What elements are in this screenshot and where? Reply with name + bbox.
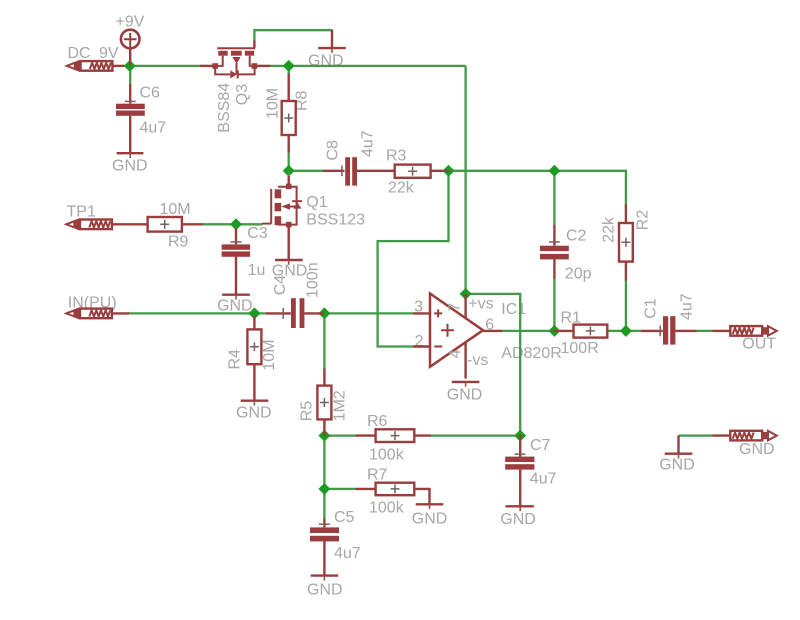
wire C6 stub xyxy=(129,66,131,85)
wire 9V rail Q3 drain to +vs column xyxy=(269,65,466,67)
label IN(PU) xyxy=(68,294,117,311)
resistor R6 xyxy=(356,429,432,442)
wire C4 to op-amp pin 3 xyxy=(322,312,413,314)
value 10M (R4, rotated) xyxy=(261,339,278,370)
capacitor C7 xyxy=(505,434,534,506)
value 10M (R9) xyxy=(160,201,191,218)
value 22k (R2, rotated) xyxy=(601,216,618,243)
svg-text:GND: GND xyxy=(217,298,253,315)
value 4u7 (C7) xyxy=(530,471,557,488)
wire R5 to R6/R7 junctions and C5 xyxy=(323,436,325,520)
wire R6 right to C7 junction xyxy=(430,434,520,436)
label BSS84 (Q3 value, rotated) xyxy=(216,83,233,133)
label TP1 xyxy=(67,204,96,221)
label GND (output jack ground pin) xyxy=(659,457,695,474)
ground C5 xyxy=(311,576,339,581)
svg-text:GND: GND xyxy=(307,582,343,599)
ground C3 xyxy=(222,295,250,300)
wire R8 bottom to C8 xyxy=(289,152,324,171)
capacitor C2 xyxy=(540,225,569,279)
svg-text:AD820R: AD820R xyxy=(501,345,561,362)
svg-text:C5: C5 xyxy=(334,509,355,526)
wire op-amp output to R1 xyxy=(502,330,555,332)
capacitor C3 xyxy=(222,228,251,295)
label R5 (rotated) xyxy=(299,401,316,422)
label C6 xyxy=(140,84,161,101)
label R2 (rotated) xyxy=(635,210,652,231)
ground GND jack net xyxy=(665,436,693,459)
value 100k (R7) xyxy=(369,499,405,516)
capacitor C1 xyxy=(641,316,697,344)
transistor Q3 BSS84 xyxy=(200,41,270,79)
value 4u7 (C5) xyxy=(334,545,361,562)
label GND (C3) xyxy=(217,298,253,315)
connector GND jack xyxy=(713,431,777,441)
label C3 xyxy=(247,225,268,242)
svg-text:+9V: +9V xyxy=(116,14,145,31)
pin 3 label xyxy=(414,299,423,316)
label GND (C6) xyxy=(112,157,148,174)
svg-text:100k: 100k xyxy=(369,499,405,516)
svg-text:GND: GND xyxy=(412,511,448,528)
svg-text:4u7: 4u7 xyxy=(360,130,377,157)
svg-text:+vs: +vs xyxy=(468,296,493,313)
connector IN(PU) jack xyxy=(66,309,129,319)
ground Q1 source xyxy=(275,260,303,265)
svg-text:4: 4 xyxy=(447,349,464,358)
wire R3 to C2 corner and R2 corner xyxy=(449,171,626,206)
svg-text:IC1: IC1 xyxy=(501,301,526,318)
pin 7 label (rotated) xyxy=(447,303,464,312)
value BSS123 (Q1) xyxy=(306,212,365,229)
capacitor C8 xyxy=(323,157,395,185)
label GND (R4) xyxy=(236,404,272,421)
wire IN jack to C4 xyxy=(128,312,267,314)
label GND (IC1 -vs) xyxy=(447,387,483,404)
ground IC1 -vs xyxy=(452,382,480,387)
pin +vs label xyxy=(468,296,493,313)
ground C6 xyxy=(117,153,144,158)
capacitor C4 xyxy=(266,298,324,328)
svg-text:1M2: 1M2 xyxy=(332,390,349,421)
svg-text:Q1: Q1 xyxy=(306,194,327,211)
label C4 (rotated) xyxy=(272,275,289,296)
value 4u7 (C6) xyxy=(140,120,167,137)
pin 4 label (rotated) xyxy=(447,349,464,358)
pin 6 label xyxy=(485,316,494,333)
label R9 xyxy=(168,234,189,251)
svg-text:BSS123: BSS123 xyxy=(306,212,365,229)
junction at TP1 node xyxy=(230,218,242,230)
value 22k (R3) xyxy=(388,179,415,196)
wire R2 bottom to output net xyxy=(625,280,627,331)
value 20p (C2) xyxy=(565,265,592,282)
svg-text:C6: C6 xyxy=(140,84,161,101)
wire TP1 node down to C3 xyxy=(235,224,237,230)
label GND (C5) xyxy=(307,582,343,599)
svg-text:4u7: 4u7 xyxy=(140,120,167,137)
svg-text:GND: GND xyxy=(739,441,775,458)
junction at Q3 drain / R8 xyxy=(283,60,295,72)
svg-text:R2: R2 xyxy=(635,210,652,231)
svg-text:10M: 10M xyxy=(261,339,278,370)
label C1 (rotated) xyxy=(643,298,660,319)
label C8 (rotated) xyxy=(325,140,342,161)
resistor R8 xyxy=(282,74,296,153)
svg-text:R5: R5 xyxy=(299,401,316,422)
label GND (Q3 gate net) xyxy=(308,52,344,69)
wire R4 stub xyxy=(253,313,255,317)
junction at IN / R4 node xyxy=(248,307,260,319)
svg-text:-vs: -vs xyxy=(467,352,488,369)
wire R2 junction to C1 xyxy=(626,330,642,332)
svg-text:10M: 10M xyxy=(265,88,282,119)
ground Q3 gate net xyxy=(318,30,346,53)
svg-text:22k: 22k xyxy=(388,179,415,196)
ground R4 xyxy=(241,401,269,406)
value AD820R (IC1) xyxy=(501,345,561,362)
op-amp IC1 AD820R xyxy=(413,294,503,379)
supply +9V symbol xyxy=(121,30,140,65)
junction at R5 bottom / R6 xyxy=(318,430,330,442)
wire +vs to C7 column xyxy=(466,294,521,436)
svg-text:22k: 22k xyxy=(601,216,618,243)
junction at R8 bottom / C8 / Q1 drain xyxy=(283,165,295,177)
label R6 xyxy=(367,413,388,430)
transistor Q1 BSS123 xyxy=(262,171,302,260)
resistor R2 xyxy=(619,205,633,281)
connector OUT jack xyxy=(713,326,777,336)
resistor R5 xyxy=(317,369,331,437)
wire feedback from R3 junction down to pin 2 xyxy=(378,171,449,347)
svg-text:4u7: 4u7 xyxy=(530,471,557,488)
svg-text:R9: R9 xyxy=(168,234,189,251)
svg-text:Q3: Q3 xyxy=(234,84,251,105)
svg-text:4u7: 4u7 xyxy=(334,545,361,562)
pin -vs label xyxy=(467,352,488,369)
svg-text:TP1: TP1 xyxy=(67,204,96,221)
label R4 (rotated) xyxy=(227,349,244,370)
junction at DC input node xyxy=(124,60,136,72)
svg-text:10M: 10M xyxy=(160,201,191,218)
value 4u7 (C8, rotated) xyxy=(360,130,377,157)
value 1M2 (R5, rotated) xyxy=(332,390,349,421)
wire GND jack to ground corner xyxy=(679,434,714,436)
label GND (C7) xyxy=(500,511,536,528)
wire Q3 gate net top xyxy=(254,30,332,41)
svg-text:R7: R7 xyxy=(367,466,388,483)
svg-text:C4: C4 xyxy=(272,275,289,296)
value 4u7 (C1, rotated) xyxy=(679,293,696,320)
svg-text:4u7: 4u7 xyxy=(679,293,696,320)
label DC_9V xyxy=(68,45,119,62)
junction at C4 right / R5 xyxy=(318,307,330,319)
svg-text:GND: GND xyxy=(447,387,483,404)
svg-text:C2: C2 xyxy=(566,228,587,245)
svg-text:R4: R4 xyxy=(227,349,244,370)
label R1 xyxy=(561,309,582,326)
junction at R1 right / R2 bottom xyxy=(620,325,632,337)
wire C2 top stub xyxy=(553,171,555,226)
junction at C2 top xyxy=(548,165,560,177)
wire C1 to OUT jack xyxy=(696,330,714,332)
label OUT xyxy=(742,336,776,353)
svg-text:100R: 100R xyxy=(561,340,599,357)
svg-text:BSS84: BSS84 xyxy=(216,83,233,133)
capacitor C5 xyxy=(310,519,339,576)
label R8 (rotated) xyxy=(294,90,311,111)
wire R8 top stub xyxy=(288,66,290,75)
connector DC_9V jack xyxy=(67,61,124,71)
wire R1 to R2 junction xyxy=(607,330,626,332)
wire C2 bottom to output net xyxy=(553,278,555,331)
ground R7 xyxy=(416,504,444,509)
junction at op-amp +vs xyxy=(460,288,472,300)
value 100k (R6) xyxy=(369,447,405,464)
svg-text:GND: GND xyxy=(659,457,695,474)
svg-text:R3: R3 xyxy=(386,147,407,164)
resistor R1 xyxy=(554,325,608,338)
svg-text:OUT: OUT xyxy=(742,336,776,353)
svg-text:C8: C8 xyxy=(325,140,342,161)
value 100n (C4, rotated) xyxy=(304,262,321,298)
svg-text:C3: C3 xyxy=(247,225,268,242)
wire R7 left stub xyxy=(324,488,356,490)
value 10M (R8, rotated) xyxy=(265,88,282,119)
resistor R9 xyxy=(148,217,203,232)
wire R5 column xyxy=(323,313,325,369)
label GND (R7) xyxy=(412,511,448,528)
label C7 xyxy=(530,437,551,454)
label GND (Q1 source) xyxy=(272,262,308,279)
wire R6 left stub xyxy=(324,434,356,436)
value 1u (C3) xyxy=(248,262,266,279)
junction at C7 top xyxy=(514,430,526,442)
label Q1 xyxy=(306,194,327,211)
label GND (output jack) xyxy=(739,441,775,458)
svg-text:20p: 20p xyxy=(565,265,592,282)
label Q3 (rotated) xyxy=(234,84,251,105)
junction at C2 bottom / R1 left xyxy=(548,325,560,337)
junction at R3 right / feedback xyxy=(443,165,455,177)
resistor R4 xyxy=(247,317,261,401)
svg-text:GND: GND xyxy=(112,157,148,174)
resistor R7 xyxy=(356,483,430,504)
resistor R3 xyxy=(395,165,449,178)
svg-text:7: 7 xyxy=(447,303,464,312)
label R7 xyxy=(367,466,388,483)
svg-text:R6: R6 xyxy=(367,413,388,430)
junction at R7 tap xyxy=(318,483,330,495)
wire +vs column down to op-amp pin 7 xyxy=(464,66,466,294)
capacitor C6 xyxy=(116,84,145,153)
wire 9V rail DC jack to Q3 xyxy=(122,65,201,67)
svg-text:GND: GND xyxy=(236,404,272,421)
pin 2 label xyxy=(415,333,424,350)
value 100R (R1) xyxy=(561,340,599,357)
label +9V xyxy=(116,14,145,31)
svg-text:100k: 100k xyxy=(369,447,405,464)
svg-text:C1: C1 xyxy=(643,298,660,319)
svg-text:GND: GND xyxy=(500,511,536,528)
svg-text:1u: 1u xyxy=(248,262,266,279)
label IC1 xyxy=(501,301,526,318)
wire R9 to junction and Q1 gate xyxy=(202,223,263,225)
ground C7 xyxy=(506,506,534,511)
svg-text:100n: 100n xyxy=(304,262,321,298)
label C2 xyxy=(566,228,587,245)
connector TP1 jack xyxy=(66,220,148,230)
label C5 xyxy=(334,509,355,526)
svg-text:C7: C7 xyxy=(530,437,551,454)
label R3 xyxy=(386,147,407,164)
